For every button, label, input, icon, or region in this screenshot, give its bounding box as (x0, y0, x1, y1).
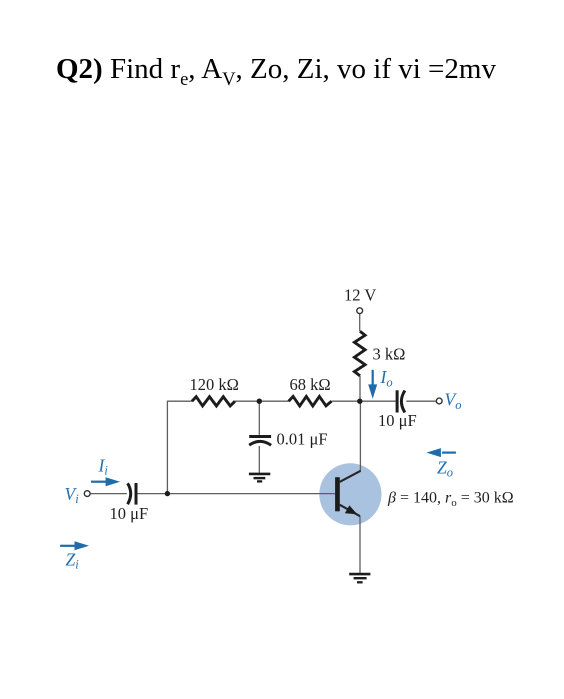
svg-text:β = 140, ro = 30 kΩ: β = 140, ro = 30 kΩ (387, 489, 514, 509)
svg-text:3 kΩ: 3 kΩ (373, 345, 406, 364)
svg-text:0.01 μF: 0.01 μF (277, 430, 328, 449)
svg-text:Ii: Ii (98, 455, 109, 477)
svg-text:12 V: 12 V (344, 286, 376, 305)
svg-text:Vi: Vi (65, 484, 80, 506)
svg-text:Zi: Zi (66, 549, 80, 571)
svg-text:Zo: Zo (437, 457, 453, 479)
svg-text:120 kΩ: 120 kΩ (190, 375, 239, 394)
svg-text:Io: Io (380, 367, 393, 389)
svg-text:68 kΩ: 68 kΩ (290, 375, 331, 394)
svg-text:10 μF: 10 μF (378, 411, 417, 430)
svg-text:Vo: Vo (445, 390, 462, 412)
svg-text:10 μF: 10 μF (110, 504, 149, 523)
